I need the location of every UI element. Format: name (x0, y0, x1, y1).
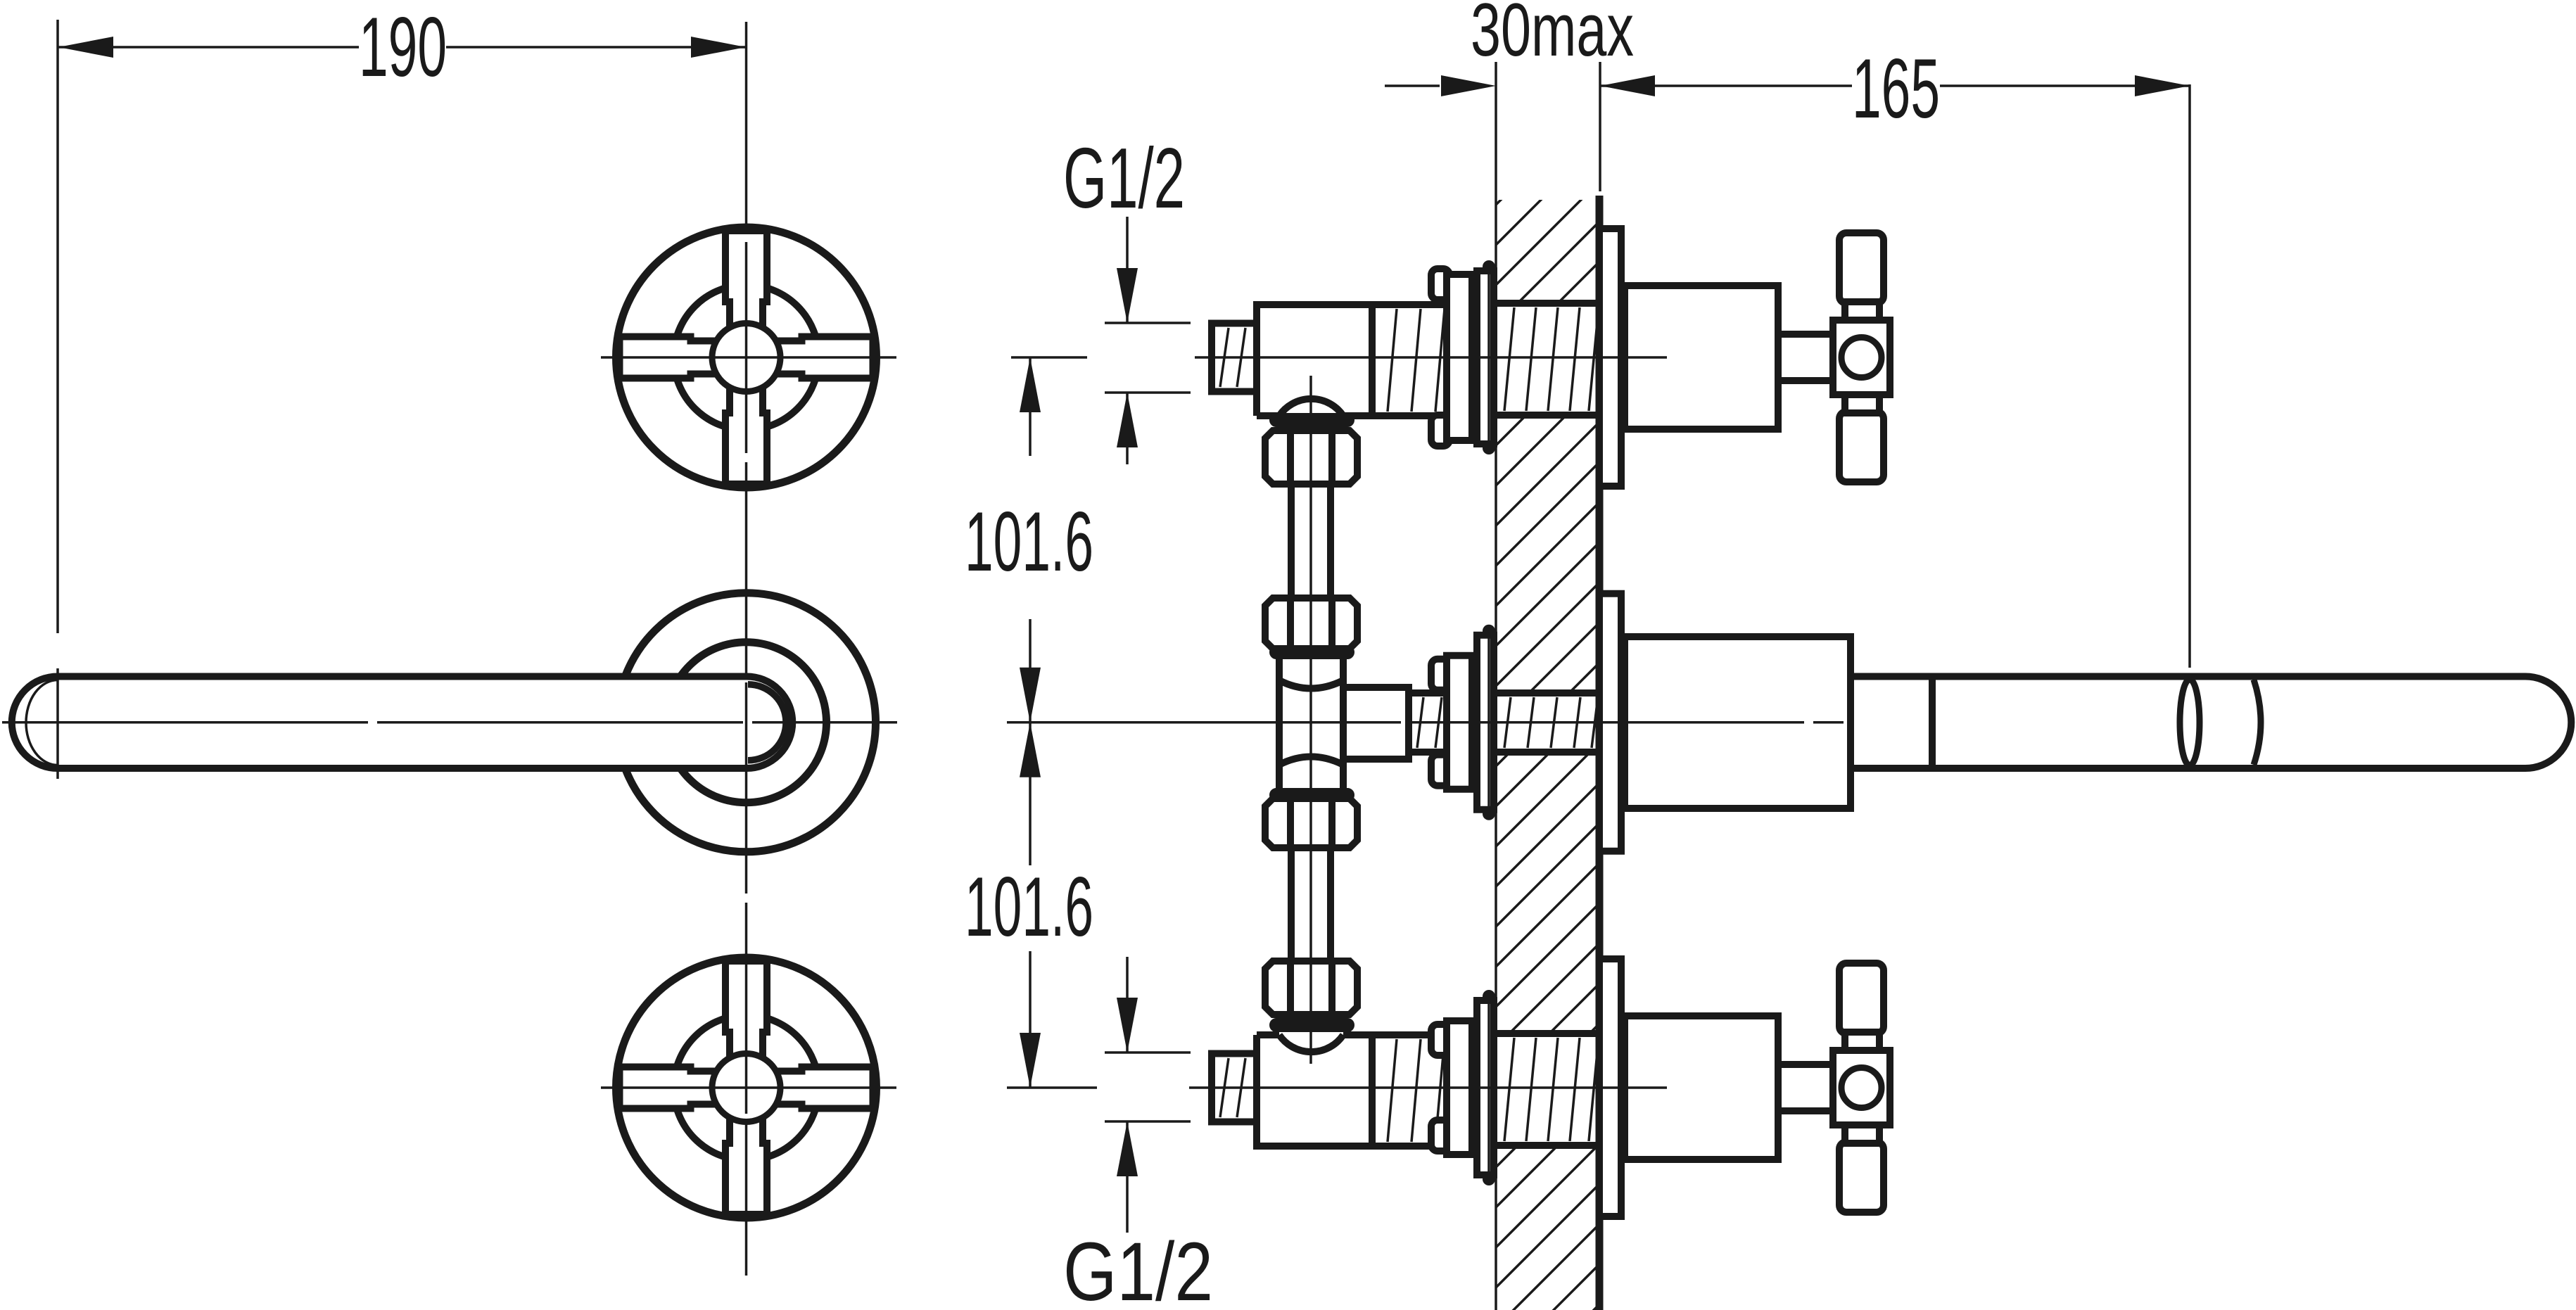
dimension 101.6 lower (965, 723, 1097, 1088)
middle valve centerline (side) (1007, 721, 1844, 724)
top handle horizontal centerline (601, 356, 896, 359)
top valve centerline (side) (1195, 356, 1667, 359)
svg-text:165: 165 (1852, 42, 1940, 136)
spout lever (front view) (12, 677, 793, 769)
svg-text:101.6: 101.6 (965, 860, 1093, 954)
wall left edge (1495, 200, 1497, 1310)
top cross handle (front view) (616, 227, 877, 488)
top valve body behind wall (1212, 303, 1599, 416)
svg-text:101.6: 101.6 (965, 495, 1093, 589)
dimension 190 (58, 0, 746, 633)
middle outlet thread through wall (1409, 693, 1599, 752)
dimension 165 (1600, 42, 2190, 668)
top cross handle (side view) (1778, 233, 1890, 482)
spout horizontal centerline (2, 721, 897, 724)
bottom valve mounting nut and plate (1431, 990, 1495, 1185)
svg-text:30max: 30max (1471, 0, 1634, 72)
top cartridge body (1625, 286, 1778, 429)
wall face line (1596, 196, 1604, 1310)
middle T junction (1279, 680, 1409, 765)
middle cover plate (1599, 594, 1621, 851)
middle lever (side view) (1851, 677, 2571, 769)
bottom cross handle (side view) (1778, 963, 1890, 1212)
dimension G1/2 bottom (1063, 957, 1213, 1310)
upper connecting pipe with union nuts (1265, 416, 1357, 680)
dimension G1/2 top (1063, 130, 1191, 464)
bottom cross handle (front view) (616, 958, 877, 1218)
dimension 101.6 upper (965, 357, 1093, 723)
dimension 30max (1385, 0, 1634, 200)
spout cap vertical centerline (56, 668, 59, 779)
bottom valve body behind wall (1212, 1034, 1599, 1146)
svg-text:G1/2: G1/2 (1063, 1226, 1213, 1310)
middle mounting nut and plate (1431, 625, 1495, 820)
bottom cover plate (1599, 959, 1621, 1216)
bottom handle horizontal centerline (601, 1086, 896, 1089)
bottom valve centerline (side) (1189, 1086, 1667, 1089)
top cover plate (1599, 229, 1621, 486)
bottom cartridge body (1625, 1016, 1778, 1159)
svg-text:190: 190 (359, 0, 447, 94)
top valve mounting nut and plate (1431, 260, 1495, 454)
vertical pipe centerline (side) (1309, 376, 1312, 1064)
vertical centerline front view (745, 22, 748, 1276)
spout escutcheon (front view) (617, 593, 876, 852)
middle cartridge body (1625, 637, 1851, 808)
lower connecting pipe with union nuts (1265, 765, 1357, 1029)
wall hatching (1496, 101, 1599, 1310)
svg-text:G1/2: G1/2 (1063, 130, 1185, 226)
